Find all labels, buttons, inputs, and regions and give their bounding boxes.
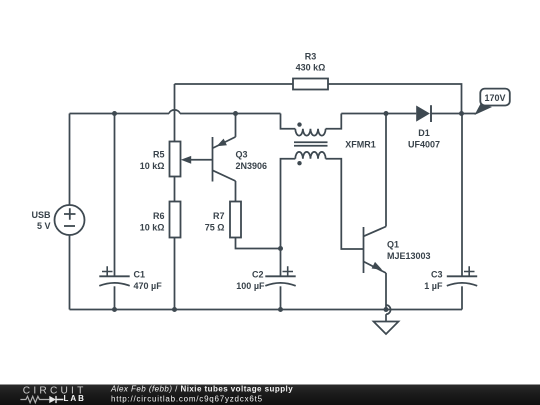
capacitor C1 top plate — [99, 275, 129, 277]
svg-text:LAB: LAB — [64, 394, 86, 403]
USB source minus sign — [64, 225, 75, 227]
inductor XFMR1 secondary coil — [295, 152, 325, 159]
wire Q3 collector to R7 — [235, 181, 237, 202]
capacitor C3 curved plate — [447, 283, 477, 286]
capacitor C2 plus sign — [283, 266, 294, 276]
resistor R5 body (potentiometer) — [170, 142, 181, 177]
svg-text:170V: 170V — [484, 93, 505, 103]
svg-text:UF4007: UF4007 — [408, 140, 440, 150]
wire R6 bottom — [174, 238, 176, 310]
transistor Q3 base bar — [212, 137, 214, 182]
svg-text:75 Ω: 75 Ω — [205, 223, 225, 233]
svg-text:430 kΩ: 430 kΩ — [296, 63, 326, 73]
CircuitLab logo resistor squiggle — [20, 396, 49, 402]
wire ground stub — [385, 314, 387, 321]
capacitor C3 top plate — [447, 275, 477, 277]
wire Q1 emitter to ground bus — [385, 273, 387, 310]
node C1 top junction — [112, 111, 117, 116]
ground hop arc at Q1 emitter node — [386, 305, 391, 314]
node Q1 collector junction — [384, 111, 389, 116]
svg-text:D1: D1 — [418, 128, 430, 138]
net flag 170V tail — [475, 104, 493, 115]
potentiometer R5 wiper arrowhead — [181, 156, 191, 164]
capacitor C1 plus sign — [102, 266, 113, 276]
transformer primary polarity dot — [297, 122, 301, 126]
wire C2 top branch — [280, 249, 282, 277]
svg-text:2N3906: 2N3906 — [236, 161, 268, 171]
svg-text:5 V: 5 V — [37, 221, 51, 231]
ground symbol triangle — [374, 322, 399, 335]
transformer core lines — [294, 142, 328, 145]
svg-text:R3: R3 — [305, 52, 317, 62]
resistor R6 body — [170, 202, 181, 238]
transistor Q1 collector diagonal — [364, 227, 387, 237]
svg-text:10 kΩ: 10 kΩ — [140, 161, 165, 171]
svg-text:XFMR1: XFMR1 — [345, 140, 376, 150]
node R7/C2/secondary junction — [278, 246, 283, 251]
wire C1 top branch — [114, 114, 116, 277]
wire transformer primary right jog — [326, 114, 342, 129]
svg-text:C1: C1 — [134, 269, 146, 279]
svg-text:470 µF: 470 µF — [134, 281, 163, 291]
svg-text:R7: R7 — [213, 211, 225, 221]
wire transformer secondary left to C2 node — [281, 159, 296, 249]
CircuitLab logo diode symbol — [49, 396, 56, 403]
wire R5 to R6 — [174, 177, 176, 202]
wire 5V top bus left segment — [70, 113, 170, 115]
transistor Q1 base bar — [363, 227, 365, 273]
svg-text:Q1: Q1 — [387, 240, 399, 250]
node R6 bottom junction — [172, 307, 177, 312]
svg-text:MJE13003: MJE13003 — [387, 251, 431, 261]
wire left rail USB top — [69, 114, 71, 206]
capacitor C3 plus sign — [464, 266, 475, 276]
wire R7 bottom to C2 node — [236, 238, 281, 249]
wire C3 bottom branch — [461, 286, 463, 309]
svg-text:100 µF: 100 µF — [236, 281, 265, 291]
transistor Q3 collector diagonal — [213, 170, 236, 181]
wire C3 top branch — [461, 114, 463, 277]
inductor XFMR1 primary coil — [295, 129, 325, 136]
diode D1 triangle — [416, 106, 430, 122]
wire R3 right to diode node — [328, 84, 462, 114]
svg-text:C2: C2 — [252, 269, 264, 279]
svg-text:C3: C3 — [431, 269, 443, 279]
wire R3 left vertical to R5 — [174, 84, 176, 142]
svg-text:http://circuitlab.com/c9q67yzd: http://circuitlab.com/c9q67yzdcx6t5 — [111, 394, 263, 403]
wire hop over R3/R5 vertical — [169, 110, 180, 114]
wire C2 bottom branch — [280, 286, 282, 309]
node ground junction — [384, 307, 389, 312]
svg-text:USB: USB — [31, 210, 51, 220]
wire 5V top bus middle segment — [180, 113, 281, 115]
node diode output junction — [459, 111, 464, 116]
transformer secondary polarity dot — [297, 161, 301, 165]
node C1 bottom junction — [112, 307, 117, 312]
wire transformer primary left jog — [281, 114, 296, 129]
diode D1 cathode bar — [430, 105, 432, 122]
wire R5 wiper to Q3 base — [188, 159, 213, 161]
svg-text:10 kΩ: 10 kΩ — [140, 223, 165, 233]
resistor R3 body — [293, 79, 328, 90]
transistor Q1 emitter arrowhead (NPN) — [372, 262, 383, 270]
svg-text:R6: R6 — [153, 211, 165, 221]
node C2 bottom junction — [278, 307, 283, 312]
capacitor C2 curved plate — [265, 283, 295, 286]
wire transformer secondary right to Q1 base — [326, 159, 364, 249]
capacitor C2 top plate — [265, 275, 295, 277]
wire R3 left horizontal — [175, 83, 294, 85]
wire Q3 emitter to bus — [235, 114, 237, 137]
wire diode cathode to output node — [431, 113, 476, 115]
resistor R7 body — [230, 202, 241, 238]
svg-text:Q3: Q3 — [236, 149, 248, 159]
net flag 170V box — [480, 89, 510, 106]
wire C1 bottom branch — [114, 286, 116, 309]
svg-text:R5: R5 — [153, 149, 165, 159]
svg-text:Alex Feb (febb) / Nixie tubes: Alex Feb (febb) / Nixie tubes voltage su… — [110, 384, 293, 393]
svg-text:1 µF: 1 µF — [424, 281, 443, 291]
transistor Q1 emitter diagonal — [364, 262, 387, 274]
wire Q1 collector to diode node — [385, 114, 387, 227]
USB source plus sign — [64, 208, 76, 220]
wire left rail USB bottom — [69, 235, 71, 310]
transistor Q3 emitter arrowhead (PNP) — [217, 139, 227, 147]
transistor Q3 emitter diagonal — [213, 137, 236, 148]
wire ground bottom bus — [70, 309, 463, 311]
node Q3 emitter junction — [233, 111, 238, 116]
voltage source USB circle — [55, 205, 85, 235]
capacitor C1 curved plate — [99, 283, 129, 286]
wire bus transformer to diode anode — [341, 113, 416, 115]
